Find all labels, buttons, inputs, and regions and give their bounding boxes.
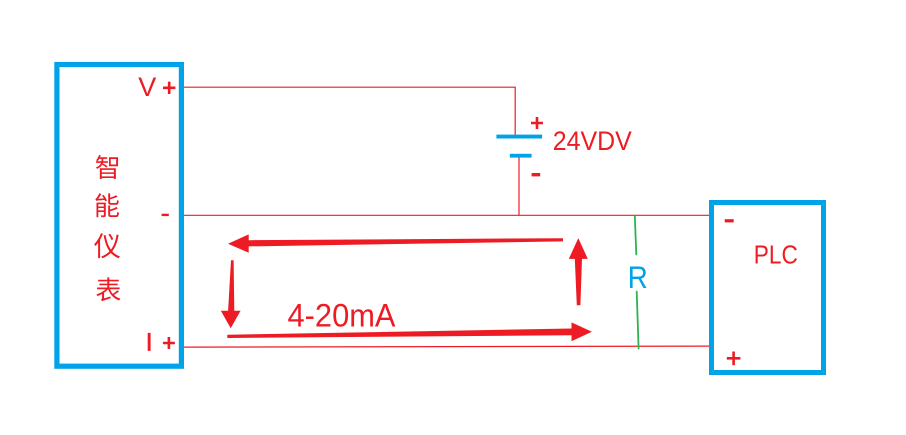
instrument box U1 智能仪表 [57,65,181,367]
svg-text:4-20mA: 4-20mA [288,298,397,334]
label 表 (instrument name) [96,277,120,301]
wire V+ to battery positive [184,87,515,135]
label 能 (instrument name) [95,193,119,217]
current arrow pointing left (top) [228,234,563,252]
svg-text:V: V [138,72,156,102]
current arrow pointing right (bottom) [227,322,592,341]
resistor R (green line upper segment) [635,216,637,255]
terminal label minus (instrument) [162,214,169,216]
PLC minus terminal label [725,219,734,222]
battery minus label [532,173,541,176]
svg-text:PLC: PLC [754,240,798,270]
wire battery negative to negative bus [518,158,520,216]
resistor R (green line lower segment) [637,292,639,349]
negative bus wire instrument to PLC [184,214,709,216]
terminal label I plus sign [163,337,175,349]
battery BT1 negative plate [510,154,532,158]
PLC box U2 [712,203,824,373]
current arrow pointing up (right) [569,238,588,305]
label 仪 (instrument name) [94,233,120,258]
battery BT1 positive plate [496,135,542,139]
PLC plus terminal label [727,352,741,366]
current arrow pointing down (left) [221,260,241,328]
bottom wire I+ to PLC plus [184,346,709,347]
terminal label V plus sign [163,82,175,94]
label 智 (instrument name) [96,155,118,179]
svg-text:24VDV: 24VDV [553,126,632,156]
svg-text:R: R [628,259,648,295]
battery plus label [531,117,543,129]
terminal label I [148,333,151,351]
